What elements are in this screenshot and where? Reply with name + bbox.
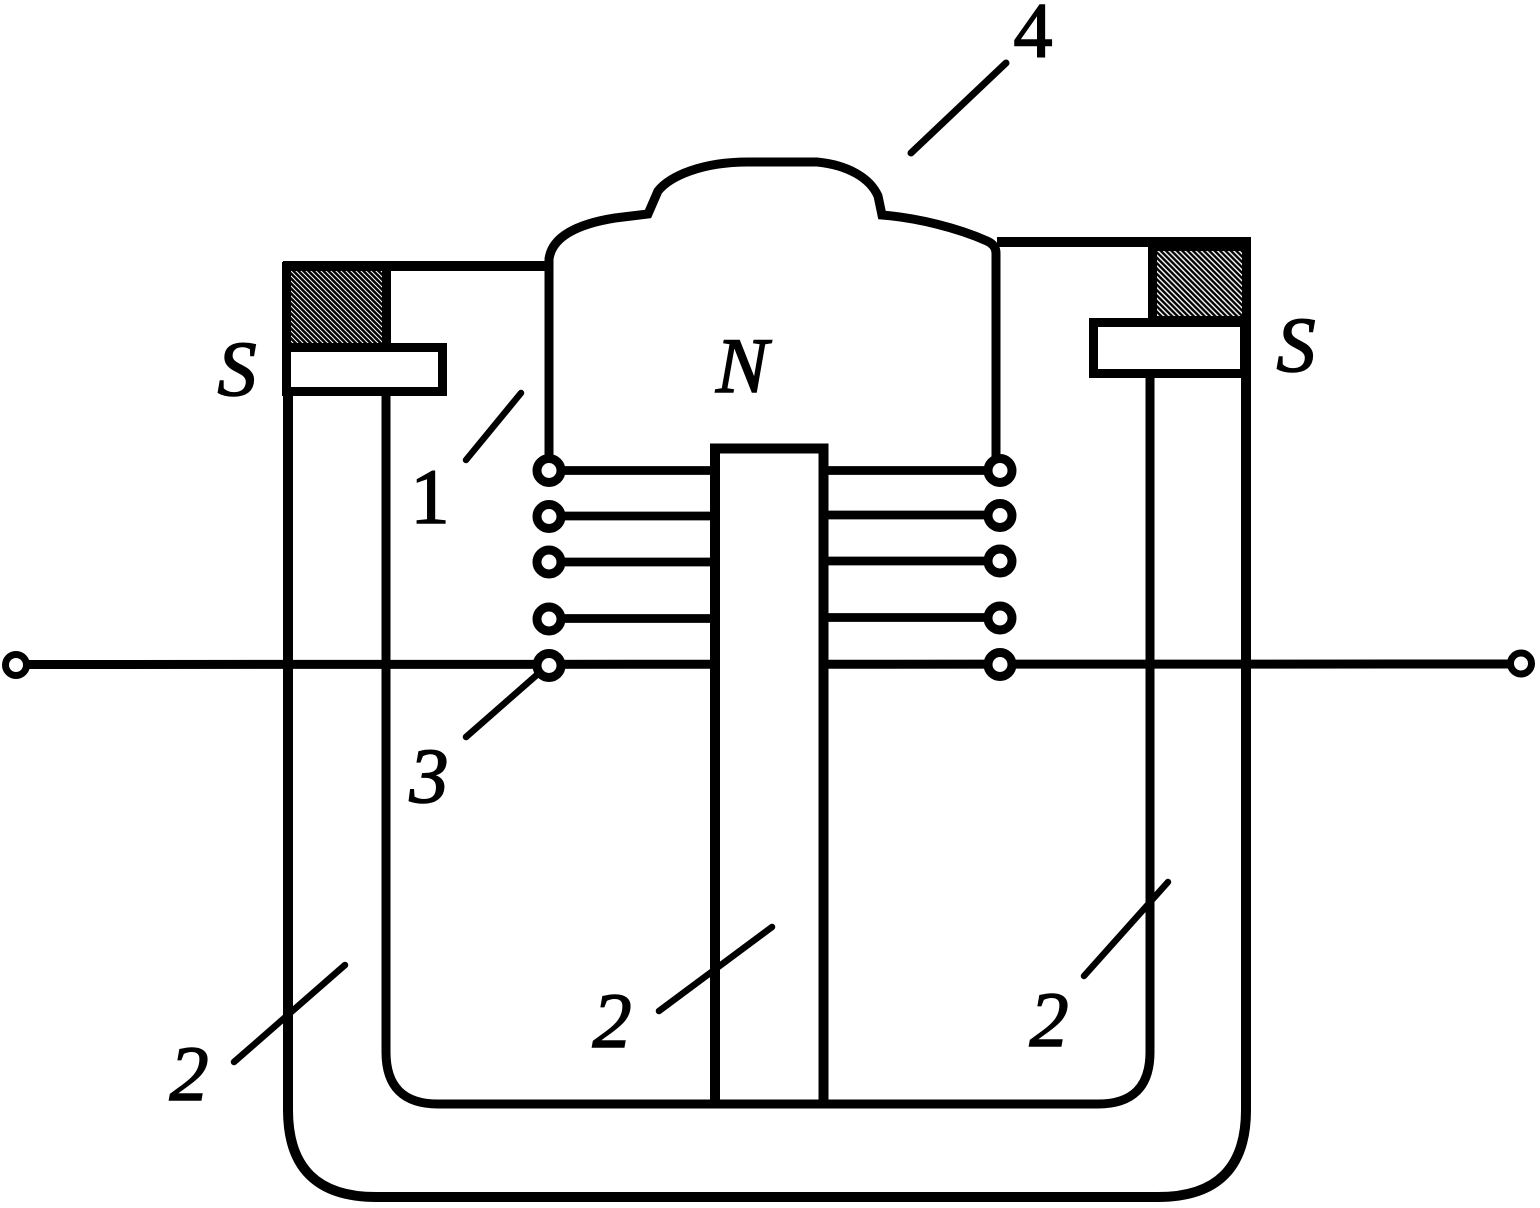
svg-text:N: N (715, 322, 772, 409)
yoke 2 (outer U frame with top arms) (288, 242, 1246, 1197)
coil 1 turn-end node R3 (988, 549, 1012, 573)
coil 1 turn R2 (823, 511, 1000, 520)
coil 1 turn-end node L2 (537, 505, 561, 529)
pole shoe left (white bar) (287, 348, 443, 392)
magnet S left (hatched block) (287, 267, 387, 348)
terminal right (lead end) (1511, 653, 1532, 674)
svg-text:3: 3 (409, 732, 449, 819)
coil 1 turn-end node L4 (537, 607, 561, 631)
leader line for label 2 left (234, 965, 345, 1062)
pole shoe right (white bar) (1094, 323, 1245, 374)
coil 1 turn-end node R2 (988, 504, 1012, 528)
svg-text:2: 2 (1030, 976, 1069, 1063)
armature 4 (crown-shaped diaphragm, N pole) (549, 162, 996, 462)
svg-text:2: 2 (170, 1030, 209, 1117)
svg-text:2: 2 (593, 977, 632, 1064)
magnet S right (hatched block) (1153, 247, 1247, 321)
coil 1 turn R1 (823, 466, 1000, 475)
coil 1 turn R4 (823, 613, 1000, 622)
svg-text:S: S (218, 325, 257, 412)
coil 1 turn-end node L3 (537, 550, 561, 574)
leader line for label 2 center (659, 927, 772, 1011)
wire 3 (signal lead across figure) (16, 660, 1521, 670)
coil 1 turn-end node L1 (537, 459, 561, 483)
coil 1 turn R3 (823, 557, 1000, 566)
terminal left (lead end) (6, 655, 27, 676)
coil 1 turn-end node R5 (junction with wire 3) (988, 653, 1012, 677)
leader line for label 1 (466, 393, 521, 460)
leader line for label 3 (466, 673, 539, 737)
coil 1 turn L3 (549, 558, 716, 567)
coil 1 turn L2 (549, 512, 716, 521)
leader line for label 2 right (1084, 882, 1168, 976)
svg-text:4: 4 (1014, 0, 1053, 74)
coil 1 turn L4 (549, 614, 716, 623)
coil 1 turn-end node L5 (junction with wire 3) (537, 654, 561, 678)
leader line for label 4 (911, 63, 1006, 153)
coil 1 turn-end node R4 (988, 606, 1012, 630)
svg-text:S: S (1277, 301, 1316, 388)
pole core 2 (center pole piece) (715, 449, 824, 1104)
coil 1 turn L1 (549, 466, 716, 475)
coil 1 turn-end node R1 (988, 459, 1012, 483)
cup 2 (inner U shell) (386, 374, 1150, 1104)
svg-text:1: 1 (411, 453, 450, 540)
